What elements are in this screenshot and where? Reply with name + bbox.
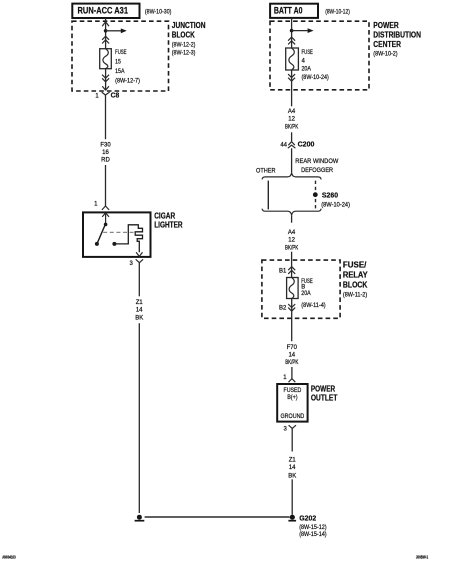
svg-text:B1: B1 [279,268,287,274]
svg-text:1: 1 [283,375,287,381]
svg-text:OUTLET: OUTLET [311,394,338,403]
svg-text:Z1: Z1 [136,300,144,306]
wire label F70 14 BK/PK [285,345,298,366]
arrow branch to other circuits [106,28,127,33]
connector C200 symbol [288,142,296,149]
pin 3 connector chevron [289,425,296,428]
pin 1 connector at power outlet [289,379,296,383]
svg-text:RELAY: RELAY [343,271,368,280]
svg-text:14: 14 [136,308,143,314]
power outlet internal labels [281,387,305,420]
wire label A4 12 BK/PK [285,109,298,131]
svg-text:15A: 15A [115,69,124,75]
wire to power outlet pin 1 [291,367,293,379]
svg-text:B: B [301,285,305,291]
fuse B labels [301,279,325,309]
svg-text:A4: A4 [288,230,296,236]
fuse 15 [100,49,112,69]
svg-text:(8W-15-12): (8W-15-12) [299,525,326,531]
splice S260 dot [313,192,318,197]
svg-text:B(+): B(+) [287,394,297,401]
wire to ground node G202 [291,479,293,514]
svg-text:FUSE/: FUSE/ [343,260,367,269]
wire label A4 12 BK/PK lower [285,230,298,252]
wire RUN-ACC A31 to fuse 15 [105,18,107,49]
fuse 4 labels [302,50,329,81]
wire pin1 to switch [105,213,107,224]
svg-text:(8W-11-4): (8W-11-4) [301,303,325,309]
svg-text:(8W-10-24): (8W-10-24) [321,203,350,209]
svg-text:OTHER: OTHER [256,167,276,174]
splice S260 label [321,191,350,209]
svg-text:15: 15 [115,60,121,66]
svg-text:REAR WINDOW: REAR WINDOW [295,158,338,165]
fuse/relay block labels [343,260,368,298]
svg-text:BK: BK [288,474,296,480]
wire into fuse/relay block [291,252,293,278]
svg-text:FUSE: FUSE [115,50,126,56]
junction block dashed box [72,21,169,91]
svg-text:BK/PK: BK/PK [285,125,298,131]
svg-text:12: 12 [288,117,295,123]
pin 1 connector at cigar lighter [102,206,109,210]
svg-text:CIGAR: CIGAR [154,211,175,220]
branch wire OTHER [267,181,269,210]
svg-text:DISTRIBUTION: DISTRIBUTION [373,30,421,39]
svg-text:BLOCK: BLOCK [172,31,195,40]
svg-text:(8W-12-7): (8W-12-7) [115,79,140,85]
node dot in PDC [290,29,294,33]
svg-text:(8W-10-2): (8W-10-2) [373,51,397,57]
wire C8 to cigar lighter [105,95,107,139]
svg-text:FUSED: FUSED [284,387,302,394]
svg-text:4: 4 [302,58,306,64]
wire fuse B to power outlet [291,299,293,342]
cigar lighter box [83,212,151,257]
svg-text:DEFOGGER: DEFOGGER [301,167,333,174]
wire label F30 16 RD [100,143,111,164]
junction block labels [172,21,206,57]
svg-text:1: 1 [94,202,98,208]
svg-text:F70: F70 [287,345,298,351]
feed box RUN-ACC A31 [72,4,139,18]
svg-text:20A: 20A [302,67,311,73]
arrowhead into junction block [102,22,109,26]
svg-text:(8W-11-2): (8W-11-2) [343,293,367,299]
double chevron connector in junction block [102,36,109,43]
double chevron connector in PDC [288,37,295,44]
svg-text:(8W-15-14): (8W-15-14) [299,532,326,538]
svg-text:B2: B2 [279,305,287,311]
svg-text:16: 16 [102,150,109,156]
wire power outlet to ground [291,429,293,452]
double chevron B2 [288,304,295,311]
svg-text:44: 44 [280,142,287,148]
svg-text:S260: S260 [322,191,338,200]
svg-text:20A: 20A [301,291,310,297]
wire BATT A0 to fuse 4 [291,18,293,48]
switch contact dot B [95,242,99,246]
arrowhead at cigar lighter pin 3 [136,252,142,256]
double chevron below fuse 4 [288,74,295,81]
cigar lighter label [154,211,183,229]
svg-text:3: 3 [284,427,288,433]
svg-text:AN004103: AN004103 [2,554,16,559]
ground node G202 dot [288,515,296,521]
svg-text:3: 3 [129,261,133,267]
heating element of cigar lighter [114,225,142,252]
feed box BATT A0 [270,4,318,18]
svg-text:F30: F30 [100,143,111,149]
splice bottom brace [262,209,321,216]
splice top brace [262,173,321,180]
svg-text:RD: RD [101,157,110,163]
branch label REAR WINDOW DEFOGGER [295,158,338,174]
fuse B [287,278,299,299]
svg-text:(8W-10-30): (8W-10-30) [145,8,172,15]
wire label Z1 14 BK [135,300,143,322]
svg-text:(8W-10-24): (8W-10-24) [302,75,329,81]
svg-text:CENTER: CENTER [373,40,401,49]
svg-text:14: 14 [288,352,295,358]
power outlet label [311,385,338,403]
svg-text:RUN-ACC A31: RUN-ACC A31 [78,5,129,16]
ground G202 labels [299,514,326,539]
branch wire to defogger (dashed) [315,181,317,209]
wire label Z1 14 BK right [288,457,296,479]
wire fuse 15 to C8 [105,69,107,91]
svg-text:14: 14 [289,465,296,471]
svg-text:C200: C200 [298,140,315,149]
fuse 4 [286,48,299,70]
svg-text:POWER: POWER [373,21,399,30]
left ground node dot [135,515,145,521]
double chevron B1 [288,267,295,274]
arrowhead at junction block exit [102,86,109,90]
switch contact dot C [112,242,116,246]
svg-text:A4: A4 [288,109,296,115]
wire cigar lighter to ground [138,263,140,297]
svg-text:POWER: POWER [311,385,335,394]
wire splice to fuse/relay block [291,216,293,223]
svg-text:1: 1 [95,94,99,100]
svg-text:BK/PK: BK/PK [285,246,298,252]
svg-text:C8: C8 [111,91,120,100]
arrowhead inside cigar lighter pin 1 [102,213,109,217]
svg-text:G202: G202 [299,514,316,523]
svg-text:LIGHTER: LIGHTER [154,221,183,230]
wire to left ground dot [138,323,140,513]
power distribution center dashed box [270,21,369,90]
wire C200 to splice brace [291,148,293,172]
power outlet box [277,384,307,422]
double chevron below fuse 15 [102,75,109,82]
mechanical link dashed line [103,231,134,233]
svg-text:(8W-12-2): (8W-12-2) [172,43,196,49]
svg-text:JUNCTION: JUNCTION [172,21,206,30]
fuse 15 labels [115,50,140,84]
svg-text:BLOCK: BLOCK [343,281,368,290]
fuse/relay block dashed box [262,260,340,318]
svg-text:Z1: Z1 [289,457,297,463]
svg-text:(8W-10-12): (8W-10-12) [325,9,350,16]
pin 3 connector chevron [136,259,143,262]
node junction dot [104,29,108,33]
ground bus wire [145,516,290,518]
connector C8 chevron [102,92,110,95]
wire to C200 [291,132,293,141]
svg-text:BK: BK [135,315,143,321]
power distribution center labels [373,21,421,57]
svg-text:GROUND: GROUND [281,413,305,420]
svg-text:J00BW-1: J00BW-1 [416,555,429,560]
wire to cigar lighter pin 1 [105,165,107,206]
svg-text:(8W-12-3): (8W-12-3) [172,51,196,57]
svg-text:BK/PK: BK/PK [285,360,298,366]
switch contact dot A [104,223,108,227]
wire fuse 4 to C200 [291,70,293,106]
arrow branch to other circuits [292,28,314,33]
svg-text:FUSE: FUSE [302,50,313,56]
switch blade [97,225,105,243]
svg-text:BATT A0: BATT A0 [274,5,303,16]
svg-text:12: 12 [288,238,295,244]
